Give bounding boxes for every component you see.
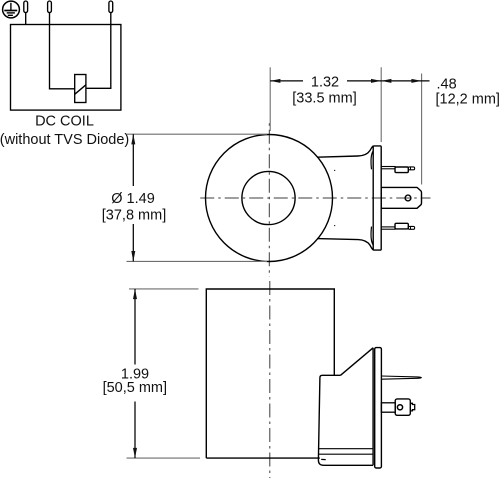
housing band line 2 — [319, 453, 374, 455]
extension line top — [127, 133, 268, 135]
centerline vertical — [268, 121, 270, 278]
coil diagonal — [75, 85, 86, 95]
centerline vertical side view — [269, 281, 271, 478]
coil inner circle — [242, 171, 295, 224]
extension line bottom — [127, 260, 268, 262]
enclosure box — [11, 25, 121, 111]
svg-text:DC COIL: DC COIL — [35, 113, 94, 129]
center boss — [381, 187, 421, 208]
arrow down — [131, 251, 135, 261]
coil element — [75, 75, 86, 103]
extension line bottom — [127, 457, 201, 459]
upper pin (spade side) — [381, 376, 421, 379]
upper spade tip notch — [410, 167, 412, 170]
arrow up — [131, 134, 135, 144]
ground (protective earth symbol) — [3, 1, 20, 18]
svg-text:[50,5 mm]: [50,5 mm] — [103, 380, 167, 396]
wire pin3 to coil — [86, 13, 111, 89]
ground terminal stem — [381, 403, 395, 412]
upper spade body — [395, 167, 408, 173]
housing diagonal top — [341, 348, 374, 376]
lower spade tip — [408, 226, 414, 229]
coil outer circle — [206, 135, 333, 262]
arrow right of 1.32 — [371, 79, 381, 83]
ground terminal tip — [410, 403, 414, 411]
housing band line 1 — [319, 448, 374, 450]
housing mold tick — [321, 458, 326, 460]
pin tip tick — [418, 377, 420, 378]
extension line left — [269, 67, 271, 131]
arrow right of .48 — [411, 79, 421, 83]
lower spade body — [395, 223, 408, 229]
pin 2 — [48, 1, 52, 13]
svg-text:[12,2 mm]: [12,2 mm] — [436, 91, 500, 107]
extension line middle — [380, 67, 382, 142]
ground terminal body — [395, 399, 410, 415]
upper spade stem — [381, 166, 395, 168]
dim line lower — [134, 402, 136, 459]
lower spade stem — [381, 226, 395, 228]
svg-text:Ø 1.49: Ø 1.49 — [111, 191, 155, 207]
extension line right — [421, 74, 423, 185]
housing right edge — [372, 348, 374, 466]
connector housing outline — [318, 375, 373, 465]
arrow left of 1.32 — [270, 79, 280, 83]
bell contour dot bottom — [334, 224, 335, 226]
arrow left of .48 — [381, 79, 391, 83]
wire pin2 to coil — [50, 13, 75, 89]
connector flange (top view) — [373, 146, 381, 250]
bell contour dot top — [334, 169, 335, 171]
pin 3 — [109, 1, 113, 13]
dim line upper — [134, 289, 136, 365]
bell contour bottom — [371, 227, 373, 246]
svg-text:[37,8 mm]: [37,8 mm] — [102, 208, 166, 224]
svg-text:[33.5 mm]: [33.5 mm] — [292, 91, 356, 107]
upper spade tip — [408, 167, 414, 170]
dim line upper — [132, 134, 134, 186]
connector flange (side view) — [375, 348, 382, 468]
extension line top — [129, 288, 199, 290]
arrow up — [133, 289, 137, 299]
arrow down — [133, 448, 137, 458]
dim line lower — [132, 224, 134, 261]
bell contour top — [371, 151, 373, 170]
lower spade tip notch — [410, 227, 412, 230]
svg-text:(without TVS Diode): (without TVS Diode) — [0, 132, 129, 148]
text 1.32 — [303, 72, 347, 89]
wire pin1 to box — [25, 13, 27, 25]
svg-text:1.32: 1.32 — [311, 74, 339, 90]
svg-text:.48: .48 — [437, 76, 457, 92]
centerline horizontal — [200, 197, 431, 199]
pin 1 — [24, 1, 28, 13]
coil body — [206, 289, 334, 458]
neck bottom edge — [317, 239, 373, 250]
boss hole — [405, 195, 411, 201]
neck top edge — [317, 146, 373, 157]
dim line .48 — [381, 80, 429, 82]
ground terminal hole — [397, 405, 402, 410]
dim line 1.32 — [270, 80, 303, 82]
